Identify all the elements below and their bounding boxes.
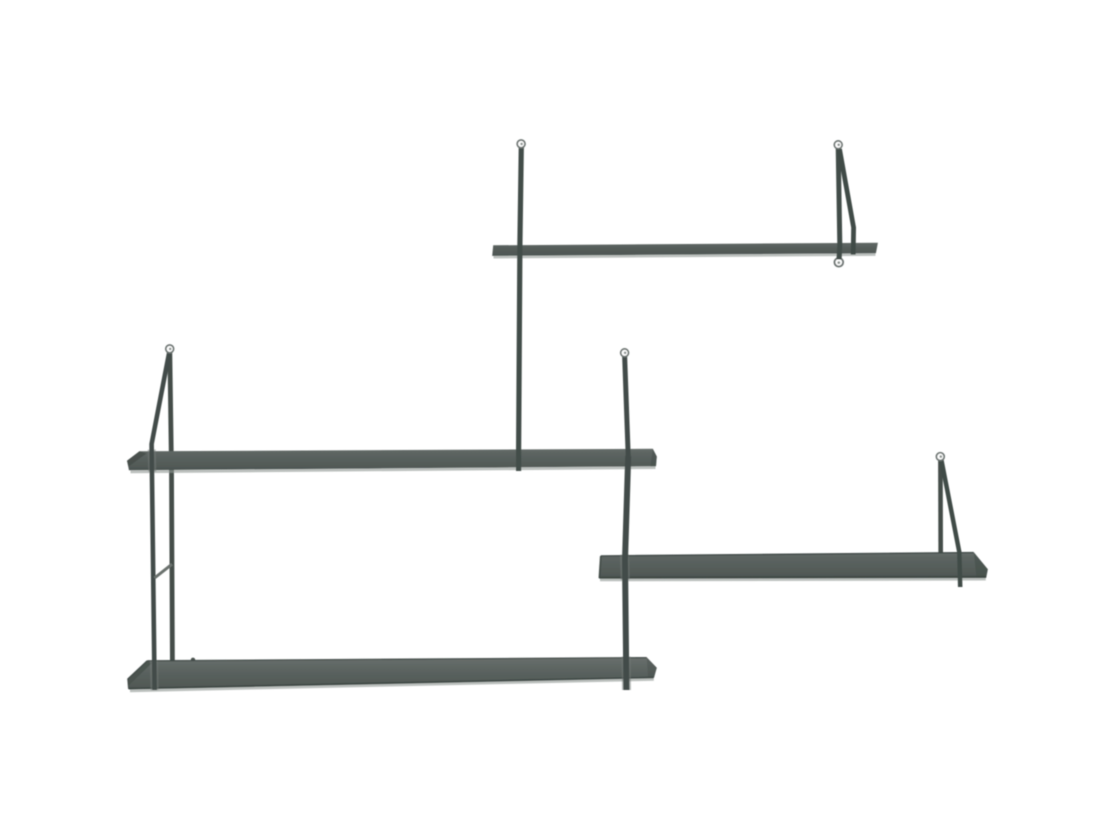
wire: right bracket back leg of small right shelf [938, 459, 943, 554]
shelf C left end edge [599, 556, 600, 578]
wire: left bracket back leg [170, 351, 173, 661]
shelf D (bottom shelf) [128, 657, 657, 689]
shelf B (middle-left shelf) [127, 449, 657, 471]
screw S6 (small right shelf bracket) [936, 453, 944, 461]
wire: top-right bracket diagonal leg [840, 149, 854, 255]
soft under-shadow shelf B [131, 468, 656, 472]
wire: long right rod through middle shelves to bottom shelf [625, 355, 629, 456]
screw S4 (left bracket) [166, 345, 174, 353]
shelf A (top shelf) [492, 243, 878, 256]
wire: left bracket front leg (diagonal then vertical) [152, 351, 170, 691]
soft under-shadow shelf C [600, 578, 986, 582]
shelf C (middle-right shelf) [599, 552, 988, 578]
wire: rod from top shelf down to middle-left shelf [519, 146, 522, 471]
screw S2 (top-right bracket) [834, 141, 842, 149]
wire: left bracket crossbar [155, 564, 173, 578]
halo of front-left rod over shelf B [148, 450, 157, 472]
shelf C bottom edge [600, 576, 986, 579]
halo of long right rod over shelf D [622, 657, 631, 691]
shelf D left end face [128, 661, 152, 686]
wire: small right shelf diagonal leg [941, 459, 960, 587]
shelf C right end face [974, 552, 988, 578]
wire: rod stub over screw S3 [837, 252, 842, 260]
shelf D bottom edge [129, 678, 654, 689]
shelf D left slant edge [128, 661, 147, 689]
screw S1 (top of middle rod) [517, 140, 525, 148]
shelf C top back edge [601, 553, 974, 556]
shelf D right end face [647, 657, 657, 678]
soft under-shadow shelf A [494, 255, 876, 258]
screw S5 (right rod top) [621, 349, 629, 357]
shelf B left end face [127, 451, 147, 466]
shelf B right end face [651, 449, 657, 467]
screw S3 (below top shelf) [835, 258, 844, 267]
shelf D top back edge [147, 658, 646, 661]
soft under-shadow shelf D [130, 679, 654, 690]
halo of front-left rod over shelf D [150, 661, 159, 690]
halo of long right rod over shelf C [620, 555, 630, 580]
wire: top-right bracket back leg [838, 147, 840, 258]
peg on bottom shelf top edge [191, 658, 195, 662]
